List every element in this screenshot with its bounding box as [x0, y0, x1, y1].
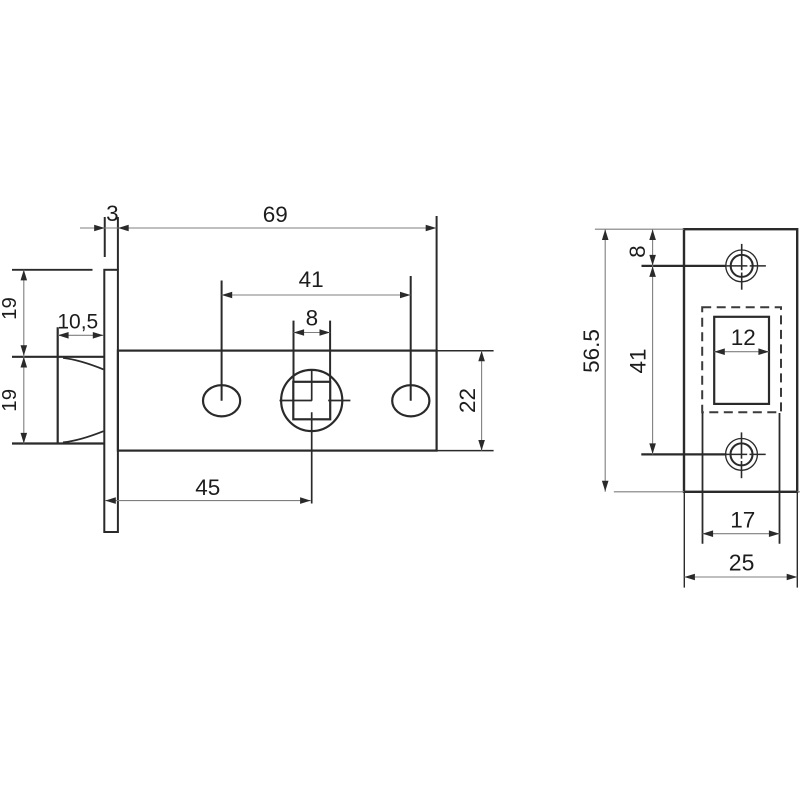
- svg-text:41: 41: [626, 348, 651, 373]
- svg-text:45: 45: [195, 475, 220, 500]
- svg-text:10,5: 10,5: [57, 311, 98, 334]
- svg-text:17: 17: [730, 507, 755, 532]
- svg-text:41: 41: [299, 267, 324, 292]
- svg-text:12: 12: [731, 325, 756, 350]
- svg-text:25: 25: [729, 550, 755, 576]
- svg-text:22: 22: [455, 388, 480, 413]
- svg-text:3: 3: [106, 201, 119, 226]
- svg-text:69: 69: [263, 202, 288, 227]
- svg-text:19: 19: [0, 389, 21, 412]
- svg-text:19: 19: [0, 297, 21, 320]
- svg-text:8: 8: [306, 306, 319, 331]
- svg-text:56.5: 56.5: [579, 329, 604, 373]
- svg-text:8: 8: [625, 245, 650, 258]
